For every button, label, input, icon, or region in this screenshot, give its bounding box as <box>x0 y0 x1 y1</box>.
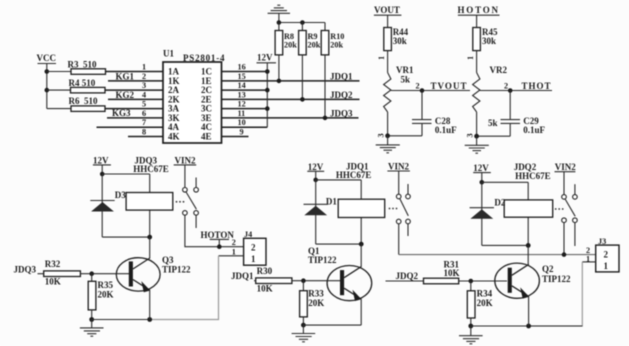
transistor Q3 TIP122 <box>116 237 191 319</box>
svg-text:JDQ2: JDQ2 <box>396 271 419 281</box>
junction dot emitter block3 <box>526 324 531 329</box>
wire pin15 JDQ1 line <box>222 80 360 82</box>
wire emitter rail block2 <box>303 324 361 326</box>
wire tap to C29 <box>509 91 511 120</box>
relay JDQ3 HHC67E <box>126 156 173 211</box>
svg-text:4K: 4K <box>168 132 180 142</box>
wire C28 bottom <box>421 123 423 135</box>
junction dot base R33 block2 <box>301 278 306 283</box>
svg-text:20K: 20K <box>477 298 493 308</box>
connector J4 <box>244 230 266 265</box>
ground below R33 <box>292 325 316 342</box>
wire R32 to base block1 <box>80 273 129 275</box>
svg-text:HHC67E: HHC67E <box>515 171 551 181</box>
svg-text:2: 2 <box>604 250 609 260</box>
svg-text:20K: 20K <box>308 298 324 308</box>
svg-text:1: 1 <box>142 63 146 72</box>
junction dot rail pin12 <box>265 106 270 111</box>
wire R4 to pin3 <box>105 89 163 91</box>
wire diode bottom to collector node block3 <box>482 244 528 246</box>
svg-text:9: 9 <box>240 128 244 137</box>
svg-text:0.1uF: 0.1uF <box>523 125 545 135</box>
svg-text:10K: 10K <box>45 277 61 287</box>
ground top earth symbol <box>268 5 290 22</box>
wire switch block2 down <box>398 224 400 255</box>
junction dot 12V block3 <box>480 180 485 185</box>
svg-text:3: 3 <box>142 81 146 90</box>
junction dot VR1 bottom <box>385 133 390 138</box>
svg-text:8: 8 <box>142 128 146 137</box>
junction dot C28 tap <box>420 88 425 93</box>
junction dot collector block2 <box>359 242 364 247</box>
wire R44 to VR1 <box>387 51 389 73</box>
resistor R9 20k <box>299 23 321 55</box>
switch contacts block2 <box>389 171 411 236</box>
wire pin11 JDQ3 line <box>222 117 359 119</box>
node HOTON terminal <box>201 230 235 247</box>
wire pin16 to 12V rail <box>222 71 268 73</box>
junction dot R10 JDQ3 <box>323 116 328 121</box>
svg-text:20K: 20K <box>98 290 114 300</box>
resistor R4 510 <box>69 78 106 93</box>
junction dot base R34 block3 <box>469 279 474 284</box>
junction dot emitter block1 <box>147 317 152 322</box>
wire J3 pin2 long line <box>399 254 596 256</box>
svg-text:JDQ3: JDQ3 <box>14 264 37 274</box>
node KG1 <box>108 71 163 81</box>
svg-text:R34: R34 <box>477 289 493 299</box>
svg-text:16: 16 <box>238 63 246 72</box>
svg-text:10K: 10K <box>444 268 460 278</box>
junction dot collector block1 <box>147 235 152 240</box>
svg-text:THOT: THOT <box>522 81 551 91</box>
resistor R10 20k <box>321 23 344 55</box>
svg-text:14: 14 <box>238 81 246 90</box>
junction dot at R4 branch <box>45 88 50 93</box>
ground below VR2 <box>465 136 489 153</box>
junction dot HOTON tap <box>217 244 222 249</box>
wire C29 bottom <box>509 123 511 136</box>
capacitor C28 0.1uF <box>412 116 457 135</box>
node VIN2 block2 <box>387 162 410 172</box>
wire VCC to R3 <box>47 71 71 73</box>
wire emitter rail block1 <box>92 319 151 321</box>
svg-text:1: 1 <box>251 254 256 264</box>
svg-text:5k: 5k <box>488 118 498 128</box>
wire R10 bottom to JDQ3 line <box>324 55 326 118</box>
junction dot rail pin16 <box>265 69 270 74</box>
junction dot R8 JDQ1 <box>277 79 282 84</box>
wire pin12 to 12V rail <box>222 108 268 110</box>
capacitor C29 0.1uF <box>501 116 546 135</box>
wire HOTON to R45 <box>476 15 478 27</box>
junction dot at R3 branch <box>45 69 50 74</box>
switch contacts block1 <box>176 165 199 228</box>
svg-text:TIP122: TIP122 <box>308 255 337 265</box>
resistor R31 10K <box>424 259 460 284</box>
svg-text:VIN2: VIN2 <box>175 156 197 166</box>
wire pin10 to 12V rail <box>222 126 268 128</box>
node JDQ2 input label <box>386 271 424 281</box>
wire pin9 stub <box>222 136 249 138</box>
svg-text:VOUT: VOUT <box>374 5 400 15</box>
transistor Q1 TIP122 <box>308 244 372 325</box>
wire R35 bottom block1 <box>91 310 93 320</box>
svg-text:R3 510: R3 510 <box>68 60 97 70</box>
wire ground bus to R9 R10 tops <box>279 22 325 24</box>
node JDQ2 R31 input line <box>423 280 425 282</box>
svg-text:VR2: VR2 <box>490 65 508 75</box>
svg-text:4: 4 <box>142 90 146 99</box>
svg-text:12V: 12V <box>308 162 324 172</box>
svg-text:TIP122: TIP122 <box>542 274 571 284</box>
svg-text:JDQ1: JDQ1 <box>231 271 254 281</box>
node KG3 <box>107 108 163 118</box>
wire pin8 stub <box>128 136 163 138</box>
svg-text:VIN2: VIN2 <box>388 162 410 172</box>
svg-text:5: 5 <box>142 100 146 109</box>
potentiometer VR1 5k <box>384 65 414 136</box>
wire relay coil vertical block1 <box>149 174 151 237</box>
node JDQ1 input <box>231 271 256 281</box>
node KG2 <box>108 90 163 100</box>
ground below R34 <box>459 326 483 344</box>
svg-text:VIN2: VIN2 <box>555 162 577 172</box>
svg-text:1: 1 <box>604 261 609 271</box>
wire R31 to base block3 <box>459 280 507 282</box>
junction dot 12V block1 <box>100 172 105 177</box>
wire switch to HOTON line block1 <box>185 215 244 247</box>
wire R33 bottom block2 <box>302 317 304 325</box>
wire J3 pin1 to emitter rail block3 <box>529 262 582 326</box>
ground below R35 <box>80 320 104 337</box>
relay JDQ1 HHC67E <box>336 162 385 218</box>
junction dot 12V block2 <box>313 178 318 183</box>
svg-text:HHC67E: HHC67E <box>336 170 372 180</box>
resistor R8 20k <box>275 23 297 55</box>
svg-text:U1: U1 <box>163 49 174 59</box>
svg-text:12V: 12V <box>473 163 489 173</box>
wire R30 to base block2 <box>292 280 340 282</box>
junction dot collector block3 <box>526 243 531 248</box>
node HOTON top <box>458 5 500 15</box>
svg-text:1: 1 <box>377 56 386 60</box>
svg-text:20k: 20k <box>330 41 343 50</box>
junction dot rail block2 <box>301 323 306 328</box>
svg-text:30k: 30k <box>482 36 496 46</box>
resistor R33 20K <box>300 281 325 317</box>
svg-text:TIP122: TIP122 <box>162 265 191 275</box>
svg-text:JDQ2: JDQ2 <box>330 90 353 100</box>
wire R34 bottom block3 <box>470 318 472 326</box>
junction dot rail pin14 <box>265 88 270 93</box>
svg-text:D2: D2 <box>494 198 505 208</box>
svg-text:2: 2 <box>232 238 236 247</box>
resistor R32 10K <box>44 259 81 287</box>
svg-text:1: 1 <box>466 56 475 60</box>
svg-text:R30: R30 <box>257 266 273 276</box>
junction dot R8 top <box>277 20 282 25</box>
wire relay coil vertical block2 <box>360 180 362 244</box>
svg-text:2: 2 <box>251 243 256 253</box>
svg-text:12V: 12V <box>93 156 109 166</box>
wire VCC to R4 <box>47 89 71 91</box>
svg-text:20k: 20k <box>308 41 321 50</box>
wire diode bottom to collector node block1 <box>102 236 150 238</box>
wire VR1 wiper TVOUT line <box>391 90 470 92</box>
svg-text:13: 13 <box>238 90 246 99</box>
svg-text:30k: 30k <box>393 36 407 46</box>
wire J4 pin1 to emitter rail <box>151 256 219 320</box>
wire J3 pin1 stub <box>582 261 595 263</box>
svg-text:KG2: KG2 <box>116 90 135 100</box>
svg-text:D3: D3 <box>115 190 126 200</box>
svg-text:12V: 12V <box>257 53 273 63</box>
junction dot R9 top <box>300 20 305 25</box>
diode D3 <box>90 174 126 237</box>
svg-text:JDQ3: JDQ3 <box>330 108 353 118</box>
wire emitter rail block3 <box>471 325 583 327</box>
svg-text:R32: R32 <box>45 259 61 269</box>
svg-text:15: 15 <box>238 72 246 81</box>
svg-text:HOTON: HOTON <box>201 230 235 240</box>
wire VR1 bottom to C28 bottom <box>388 135 422 137</box>
optocoupler U1 PS2801-4 <box>163 49 225 144</box>
svg-text:7: 7 <box>142 118 146 127</box>
svg-text:10K: 10K <box>257 284 273 294</box>
wire VR2 bottom to C29 bottom <box>477 135 511 137</box>
node 12V top rail <box>257 53 277 63</box>
svg-text:TVOUT: TVOUT <box>431 81 467 91</box>
svg-text:5k: 5k <box>401 75 411 85</box>
svg-text:2: 2 <box>504 82 508 91</box>
svg-text:R33: R33 <box>308 289 324 299</box>
junction dot rail block3 <box>468 324 473 329</box>
wire pin13 JDQ2 line <box>222 98 360 100</box>
svg-text:1: 1 <box>232 247 236 256</box>
node 12V block1 <box>93 156 111 166</box>
wire 12V to relay top block2 <box>316 179 362 181</box>
svg-text:12: 12 <box>238 100 246 109</box>
resistor R44 30k <box>384 27 409 51</box>
svg-text:R4 510: R4 510 <box>69 78 96 88</box>
resistor R35 20K <box>88 274 113 310</box>
wire VOUT to R44 <box>387 15 389 27</box>
svg-text:3: 3 <box>377 133 386 137</box>
wire VR2 wiper THOT line <box>480 90 552 92</box>
svg-text:10: 10 <box>238 118 246 127</box>
wire R8 bottom to JDQ1 line <box>278 55 280 81</box>
svg-text:2: 2 <box>416 82 420 91</box>
wire VCC corner to R6 <box>47 108 71 110</box>
switch contacts block3 <box>555 172 577 246</box>
svg-text:6: 6 <box>142 109 146 118</box>
transistor Q2 TIP122 <box>495 245 571 326</box>
wire R6 to pin5 <box>105 108 163 110</box>
resistor R45 30k <box>473 27 498 51</box>
svg-text:20k: 20k <box>284 41 297 50</box>
wire switch block3 to J3 pin2 line <box>563 223 565 255</box>
svg-text:0.1uF: 0.1uF <box>435 125 457 135</box>
junction dot R9 JDQ2 <box>300 97 305 102</box>
potentiometer VR2 <box>473 65 508 136</box>
wire J4 pin1 stub <box>219 255 244 257</box>
wire R45 to VR2 <box>476 51 478 73</box>
svg-text:2: 2 <box>142 72 146 81</box>
resistor R30 10K <box>256 266 292 294</box>
relay JDQ2 HHC67E <box>504 162 553 217</box>
svg-text:R6 510: R6 510 <box>69 96 98 106</box>
wire R9 bottom to JDQ2 line <box>301 55 303 100</box>
wire diode bottom to collector node block2 <box>316 243 362 245</box>
svg-text:KG1: KG1 <box>116 71 135 81</box>
wire 12V down block1 <box>101 165 103 174</box>
wire relay coil vertical block3 <box>527 182 529 245</box>
node VIN2 block1 <box>174 156 197 166</box>
svg-text:R35: R35 <box>98 280 114 290</box>
junction dot ground rail block1 <box>89 317 94 322</box>
wire pin7 stub <box>97 126 164 128</box>
wire tap to C28 <box>421 91 423 120</box>
svg-text:3: 3 <box>466 133 475 137</box>
wire R3 to pin1 <box>106 71 164 73</box>
svg-text:HHC67E: HHC67E <box>133 164 169 174</box>
svg-text:VR1: VR1 <box>396 65 414 75</box>
node 12V block3 <box>473 163 491 173</box>
svg-text:HOTON: HOTON <box>458 5 499 15</box>
wire 12V to relay top block1 <box>102 173 150 175</box>
wire 12V to relay top block3 <box>482 181 528 183</box>
ground below VR1 <box>376 136 400 153</box>
svg-text:11: 11 <box>238 109 246 118</box>
connector J3 <box>596 237 619 272</box>
node VOUT <box>374 5 402 15</box>
svg-text:4E: 4E <box>201 132 212 142</box>
svg-text:Q2: Q2 <box>542 264 554 274</box>
diode D1 <box>304 180 338 244</box>
svg-text:JDQ1: JDQ1 <box>330 71 353 81</box>
junction dot base R35 block1 <box>89 271 94 276</box>
wire VCC vertical branch <box>46 64 48 109</box>
junction dot C29 tap <box>508 88 513 93</box>
svg-text:VCC: VCC <box>37 53 57 63</box>
node VCC <box>37 53 57 64</box>
diode D2 <box>470 182 506 245</box>
svg-text:KG3: KG3 <box>112 108 131 118</box>
wire 12V rail vertical <box>266 63 268 127</box>
resistor R3 510 <box>68 60 106 75</box>
resistor R34 20K <box>467 281 492 318</box>
wire 12V down block2 <box>315 171 317 180</box>
junction dot J3 pin2 tap <box>562 252 567 257</box>
node 12V block2 <box>307 162 324 172</box>
junction dot VR2 bottom <box>474 134 479 139</box>
node VIN2 block3 <box>555 162 577 172</box>
wire 12V down block3 <box>481 173 483 183</box>
resistor R6 510 <box>69 96 106 112</box>
wire pin14 to 12V rail <box>222 89 268 91</box>
node JDQ3 input <box>14 264 44 274</box>
